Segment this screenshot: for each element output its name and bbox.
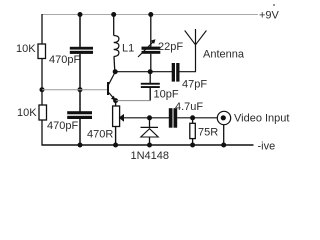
- node collector wire / VC1 / C10pF: [148, 69, 153, 74]
- inductor L1: [114, 36, 119, 57]
- svg-text:-ive: -ive: [258, 141, 276, 153]
- wire collector node to 22pF node: [115, 71, 172, 73]
- wire L1 to collector node: [113, 57, 116, 72]
- wire 75R to bottom rail: [192, 139, 194, 145]
- wire connector shield to bottom rail: [223, 125, 225, 145]
- resistor 10K upper: [38, 44, 46, 59]
- svg-text:1N4148: 1N4148: [131, 150, 170, 162]
- wire junction to C2: [79, 90, 81, 112]
- svg-text:75R: 75R: [198, 127, 218, 139]
- wire +9V top rail: [42, 14, 258, 16]
- wire base node to R2: [41, 90, 43, 106]
- svg-text:470pF: 470pF: [47, 120, 78, 132]
- wire rail to C1: [79, 15, 81, 48]
- label 470pF lower: [47, 120, 78, 132]
- node collector junction: [113, 69, 118, 74]
- capacitor 470pF lower: [67, 111, 92, 119]
- wire rail to VC1: [150, 15, 152, 48]
- antenna: [185, 29, 207, 72]
- wire node to 10pF: [149, 72, 151, 83]
- wire R2 to bottom rail: [41, 120, 43, 146]
- svg-text:10K: 10K: [17, 107, 37, 119]
- wire node to diode: [149, 118, 151, 127]
- svg-text:4.7uF: 4.7uF: [175, 101, 203, 113]
- svg-text:Antenna: Antenna: [203, 49, 245, 61]
- capacitor 10pF: [141, 83, 160, 88]
- connector Video Input: [217, 111, 230, 124]
- svg-text:47pF: 47pF: [182, 78, 207, 90]
- capacitor 470pF upper: [70, 47, 93, 54]
- node bottom rail / diode: [147, 143, 152, 148]
- capacitor 47pF: [172, 63, 180, 82]
- node base-divider junction left: [40, 87, 45, 92]
- node top rail / C1: [78, 12, 83, 17]
- wire bottom -ive rail: [42, 144, 254, 146]
- node bottom rail / C2: [78, 143, 83, 148]
- node emitter junction: [113, 98, 118, 103]
- node bottom rail / 470R: [113, 143, 118, 148]
- label 75R: [198, 127, 218, 139]
- label L1: [122, 43, 134, 55]
- node bottom rail / connector: [221, 143, 226, 148]
- label Video Input: [234, 112, 289, 124]
- label 470R: [87, 129, 113, 141]
- wire 47pF to antenna: [180, 71, 196, 73]
- capacitor 4.7uF: [169, 108, 177, 128]
- label 10pF: [154, 88, 179, 100]
- svg-text:470pF: 470pF: [49, 54, 80, 66]
- wire node to 75R: [192, 118, 194, 124]
- wire 10pF to emitter wire: [149, 88, 151, 101]
- svg-text:10K: 10K: [16, 43, 36, 55]
- diode 1N4148: [141, 127, 159, 137]
- label 47pF: [182, 78, 207, 90]
- svg-text:22pF: 22pF: [158, 41, 183, 53]
- label 22pF: [158, 41, 183, 53]
- resistor 10K lower: [39, 105, 47, 120]
- svg-text:470R: 470R: [87, 129, 113, 141]
- label 4.7uF: [175, 101, 203, 113]
- wire diode to bottom rail: [149, 137, 151, 145]
- wire rail to L1: [113, 15, 115, 36]
- resistor 75R: [190, 123, 196, 138]
- wire 470R to bottom rail: [115, 127, 117, 146]
- node base wire / C1-C2 junction: [78, 87, 83, 92]
- node top rail / L1: [111, 12, 116, 17]
- label Antenna: [203, 49, 245, 61]
- wire emitter interconnect: [116, 100, 151, 102]
- wire C2 to bottom rail: [79, 119, 81, 145]
- wire 4.7uF to connector: [177, 117, 217, 119]
- svg-text:Video Input: Video Input: [234, 112, 289, 124]
- resistor 470R preset: [113, 106, 150, 127]
- wire VC1 to collector wire: [150, 54, 152, 72]
- label 1N4148: [131, 150, 170, 162]
- svg-text:10pF: 10pF: [154, 88, 179, 100]
- svg-text:+9V: +9V: [259, 10, 280, 22]
- wire emitter node to 470R: [115, 101, 117, 106]
- wire base interconnect: [42, 89, 107, 91]
- transistor Q1: [107, 72, 116, 100]
- label 10K upper: [16, 43, 36, 55]
- node 75R top: [190, 115, 195, 120]
- label -ive: [258, 141, 276, 153]
- label +9V: [259, 4, 280, 22]
- node bottom rail / 75R: [190, 143, 195, 148]
- svg-text:L1: L1: [122, 43, 134, 55]
- node top rail / VC1: [148, 12, 153, 17]
- wire diode node to 4.7uF: [150, 117, 170, 119]
- wire R1 to base node: [41, 58, 43, 90]
- variable capacitor 22pF: [138, 39, 160, 57]
- label 10K lower: [17, 107, 37, 119]
- label 470pF upper: [49, 54, 80, 66]
- node wiper wire / diode: [147, 115, 152, 120]
- wire C1 to base node: [79, 54, 81, 90]
- wire left branch upper (rail to R1): [41, 14, 43, 45]
